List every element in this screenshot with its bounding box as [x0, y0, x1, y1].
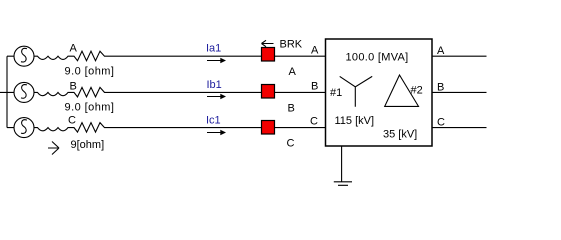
svg-text:B: B [288, 103, 295, 115]
svg-text:BRK: BRK [280, 39, 303, 51]
svg-text:B: B [70, 81, 77, 93]
svg-text:B: B [437, 82, 444, 94]
svg-text:9[ohm]: 9[ohm] [71, 139, 105, 151]
svg-text:C: C [310, 116, 318, 128]
svg-text:Ia1: Ia1 [206, 43, 221, 55]
svg-text:Ib1: Ib1 [207, 79, 222, 91]
svg-text:C: C [437, 117, 445, 129]
svg-text:A: A [437, 45, 445, 57]
svg-text:A: A [70, 43, 78, 55]
svg-text:A: A [289, 66, 297, 78]
svg-text:115 [kV]: 115 [kV] [335, 115, 375, 127]
svg-text:100.0 [MVA]: 100.0 [MVA] [346, 52, 409, 64]
svg-text:35 [kV]: 35 [kV] [383, 129, 417, 141]
svg-text:C: C [68, 115, 76, 127]
svg-text:9.0 [ohm]: 9.0 [ohm] [65, 102, 115, 114]
svg-text:C: C [287, 138, 295, 150]
svg-text:#1: #1 [330, 87, 342, 99]
svg-text:Ic1: Ic1 [206, 115, 221, 127]
svg-text:B: B [311, 81, 318, 93]
svg-text:9.0 [ohm]: 9.0 [ohm] [65, 66, 115, 78]
svg-text:A: A [311, 45, 319, 57]
svg-text:#2: #2 [411, 84, 423, 96]
